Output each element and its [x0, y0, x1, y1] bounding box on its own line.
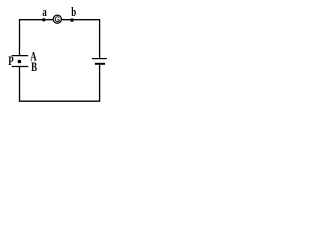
- node b label: [71, 6, 76, 20]
- node a label: [42, 5, 47, 19]
- plate A label: [30, 50, 36, 64]
- wire left vertical upper: [19, 19, 21, 56]
- svg-text:a: a: [42, 5, 47, 19]
- wire top-right segment: [62, 19, 100, 21]
- galvanometer G1 letter: [55, 17, 59, 22]
- node a dot: [42, 18, 45, 21]
- plate A (upper electrode): [12, 55, 29, 57]
- node P label: [8, 55, 14, 69]
- wire top-left segment: [20, 19, 54, 21]
- wire left vertical lower: [19, 67, 21, 102]
- battery BT1 short thick plate: [95, 63, 105, 65]
- wire right vertical lower: [99, 64, 101, 101]
- svg-text:B: B: [31, 61, 37, 75]
- plate B (lower electrode): [12, 66, 29, 68]
- battery BT1 long plate: [92, 58, 107, 60]
- svg-text:P: P: [8, 55, 14, 69]
- galvanometer G1 circle: [53, 15, 61, 23]
- node P dot: [18, 60, 22, 64]
- plate B label: [31, 61, 37, 75]
- svg-text:b: b: [71, 6, 76, 20]
- wire right vertical upper: [99, 19, 101, 59]
- node b dot: [70, 18, 73, 21]
- wire bottom segment: [19, 100, 100, 102]
